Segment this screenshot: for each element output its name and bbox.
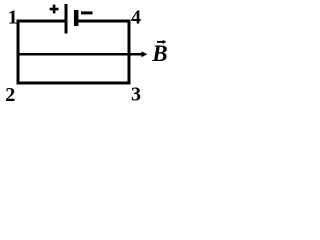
- svg-text:4: 4: [131, 7, 141, 29]
- battery negative plate (short): [74, 10, 79, 26]
- wire bottom side (node 2 to node 3): [17, 82, 131, 85]
- plus polarity label: [50, 5, 59, 14]
- battery positive plate (long): [65, 4, 68, 34]
- minus polarity label: [81, 11, 93, 14]
- field arrowhead: [141, 51, 147, 57]
- svg-text:B: B: [151, 41, 167, 66]
- wire right side (node 3 to node 4): [128, 20, 131, 85]
- svg-text:1: 1: [8, 7, 18, 29]
- node 1 label: [8, 7, 18, 29]
- background: [0, 0, 175, 105]
- magnetic field line: [18, 53, 142, 56]
- node 2 label: [5, 84, 15, 106]
- vector arrow over B: [157, 40, 166, 44]
- B field label: [151, 41, 167, 66]
- svg-text:2: 2: [5, 84, 15, 105]
- wire top-right segment (battery - to node 4): [77, 20, 131, 23]
- node 3 label: [131, 83, 141, 105]
- wire left side (node 1 to node 2): [17, 20, 20, 85]
- node 4 label: [131, 7, 141, 29]
- wire top-left segment (node 1 to battery +): [17, 20, 66, 23]
- svg-text:3: 3: [131, 83, 141, 105]
